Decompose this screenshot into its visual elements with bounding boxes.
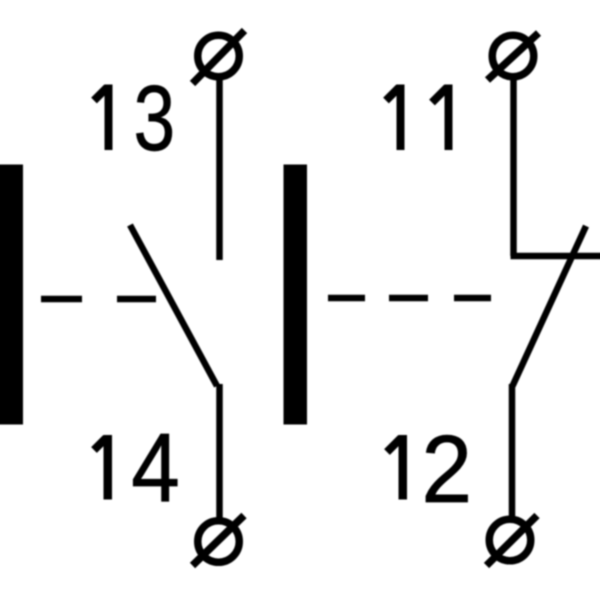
NC contact lever (11-12) [513,226,587,386]
actuator bar middle (pushbutton plunger) [284,165,308,425]
wire from NC contact to terminal 12 [509,384,516,518]
terminal 14 screw circle [193,516,245,566]
pin label 13 digit 1 [94,85,113,151]
pin label 11 digit 1 (second) [432,85,453,151]
pin label 14 digit 1 [94,435,112,500]
NC contact fixed stop bar [511,253,600,260]
svg-text:2: 2 [421,415,472,522]
mechanical linkage dashed line left [41,296,156,303]
terminal 12 screw circle [487,516,538,566]
wire from terminal 13 to NO contact [216,77,223,260]
actuator bar left (pushbutton plunger) [0,165,23,425]
terminal 11 screw circle [488,33,539,80]
mechanical linkage dashed line right [328,295,491,302]
pin label 12 digit 1 [387,435,407,500]
wire from terminal 11 to NC contact [510,77,517,256]
NO contact lever (13-14) [130,225,217,386]
pin label 11 digit 1 (first) [386,85,405,151]
svg-text:4: 4 [131,413,180,522]
terminal 13 screw circle [193,31,245,84]
svg-text:3: 3 [134,66,176,169]
wire from NO contact to terminal 14 [216,384,223,520]
